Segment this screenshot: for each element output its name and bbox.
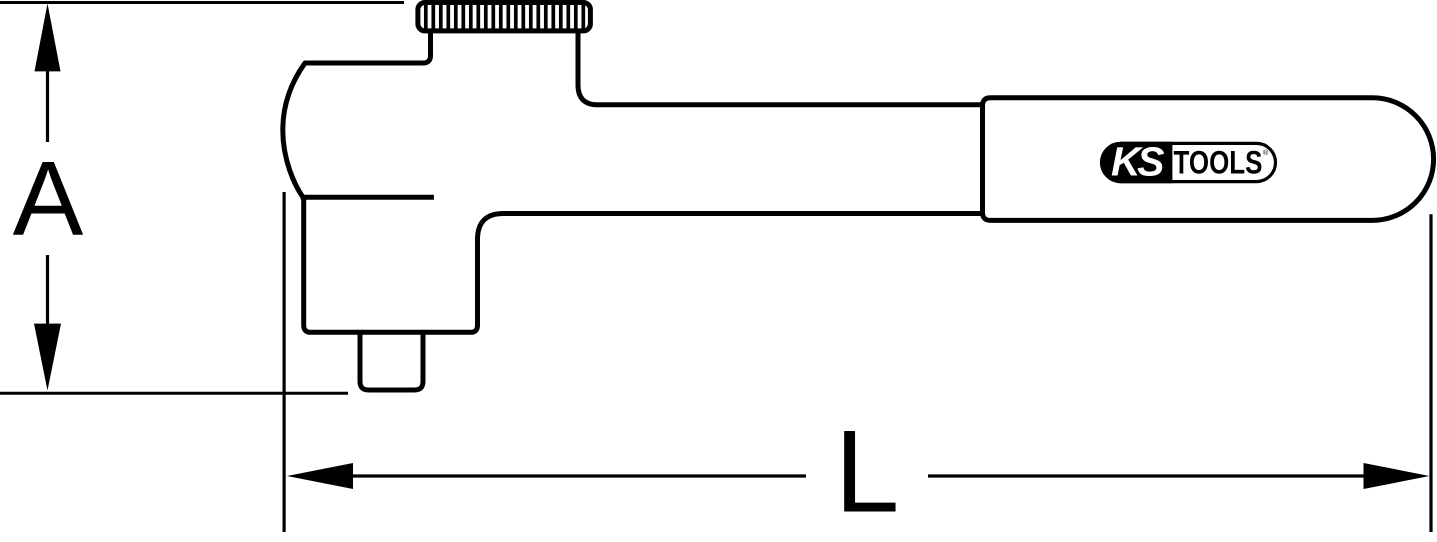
arrowhead A down — [34, 324, 61, 391]
dimension line A upper segment — [46, 70, 49, 142]
KS TOOLS logo capsule — [1102, 143, 1276, 181]
extension line bottom (A dimension, lower) — [0, 392, 348, 395]
dimension line L left segment — [352, 474, 806, 477]
arrowhead A up — [35, 4, 61, 72]
svg-text:®: ® — [1263, 148, 1269, 157]
svg-text:KS: KS — [1111, 139, 1164, 185]
arrowhead L left — [287, 463, 353, 489]
extension line top (A dimension, upper) — [0, 1, 404, 4]
svg-text:A: A — [13, 140, 84, 258]
dimension line A lower segment — [46, 255, 49, 325]
knob left neck and head top outline — [283, 31, 431, 197]
knurled adjustment knob — [418, 2, 591, 32]
svg-text:L: L — [835, 407, 900, 537]
handle outline — [983, 98, 1434, 221]
extension line left (L dimension) — [283, 192, 286, 532]
square drive — [360, 332, 423, 390]
KS TOOLS logo left black field — [1101, 142, 1173, 183]
extension line right (L dimension) — [1429, 214, 1432, 532]
arrowhead L right — [1364, 463, 1430, 489]
head body outline into shaft bottom — [304, 197, 983, 332]
svg-text:TOOLS: TOOLS — [1174, 144, 1263, 180]
head mid edge line — [301, 195, 434, 200]
knob right neck into shaft top — [578, 31, 983, 105]
dimension line L right segment — [928, 474, 1364, 477]
